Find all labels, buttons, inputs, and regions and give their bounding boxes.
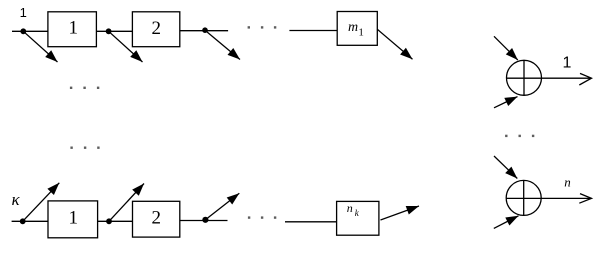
junction dot node kb1 [20, 218, 26, 224]
input arrow to adder U1 (upper) [494, 36, 518, 60]
register cell 1 (row k) [48, 201, 98, 238]
svg-text:n: n [347, 201, 353, 215]
ellipsis between adders [505, 135, 534, 137]
input arrow to adder Un (lower) [494, 216, 519, 229]
wire cell2 onward (row k) [180, 220, 228, 222]
junction dot node kb3 [202, 217, 208, 223]
junction dot node 1c [202, 27, 208, 33]
wire cell1 to cell2 (row 1) [96, 30, 132, 32]
svg-text:κ: κ [12, 190, 21, 209]
junction dot node kb2 [106, 218, 112, 224]
wire input-1 to cell 1 [12, 30, 49, 32]
svg-text:1: 1 [563, 55, 572, 72]
junction dot node 1a [20, 28, 26, 34]
wire cell1 to cell2 (row k) [98, 220, 133, 222]
tap arrow from cell m1 output [377, 29, 412, 59]
register cell nk [337, 201, 379, 235]
svg-text:1: 1 [358, 27, 364, 39]
tap arrow from cell nk output [381, 206, 420, 220]
svg-text:1: 1 [20, 5, 27, 20]
svg-text:k: k [355, 208, 360, 218]
wire cell2 onward (row 1) [180, 30, 228, 32]
tap arrow from node 1b [109, 31, 143, 62]
output wire of adder U1 [542, 73, 592, 85]
svg-text:1: 1 [68, 208, 78, 229]
wire to cell nk [285, 221, 337, 223]
register cell 2 (row k) [133, 201, 180, 237]
tap arrow from node kb3 [205, 193, 239, 220]
XOR adder U1 (output 1) [507, 60, 542, 96]
register cell 2 (row 1) [132, 12, 179, 47]
output wire of adder Un [541, 194, 591, 204]
tap arrow from node kb2 [109, 184, 144, 222]
wire input-k to cell 1 [12, 220, 49, 222]
input arrow to adder U1 (lower) [494, 97, 518, 108]
svg-text:1: 1 [69, 18, 79, 39]
svg-text:m: m [348, 20, 358, 35]
svg-text:2: 2 [151, 18, 161, 39]
tap arrow from node 1c [205, 30, 240, 59]
ellipsis row k [248, 216, 276, 218]
ellipsis between rows (lower) [70, 147, 99, 149]
ellipsis between rows (upper) [70, 87, 99, 89]
tap arrow from node 1a [23, 31, 57, 62]
junction dot node 1b [106, 28, 112, 34]
ellipsis row 1 [248, 26, 277, 28]
svg-text:n: n [564, 175, 571, 190]
register cell m1 [337, 12, 377, 46]
wire to cell m1 [289, 30, 337, 32]
tap arrow from node kb1 [23, 183, 60, 222]
register cell 1 (row 1) [48, 12, 97, 47]
XOR adder Un (output n) [506, 180, 541, 216]
svg-text:2: 2 [152, 208, 162, 229]
input arrow to adder Un (upper) [494, 156, 517, 179]
